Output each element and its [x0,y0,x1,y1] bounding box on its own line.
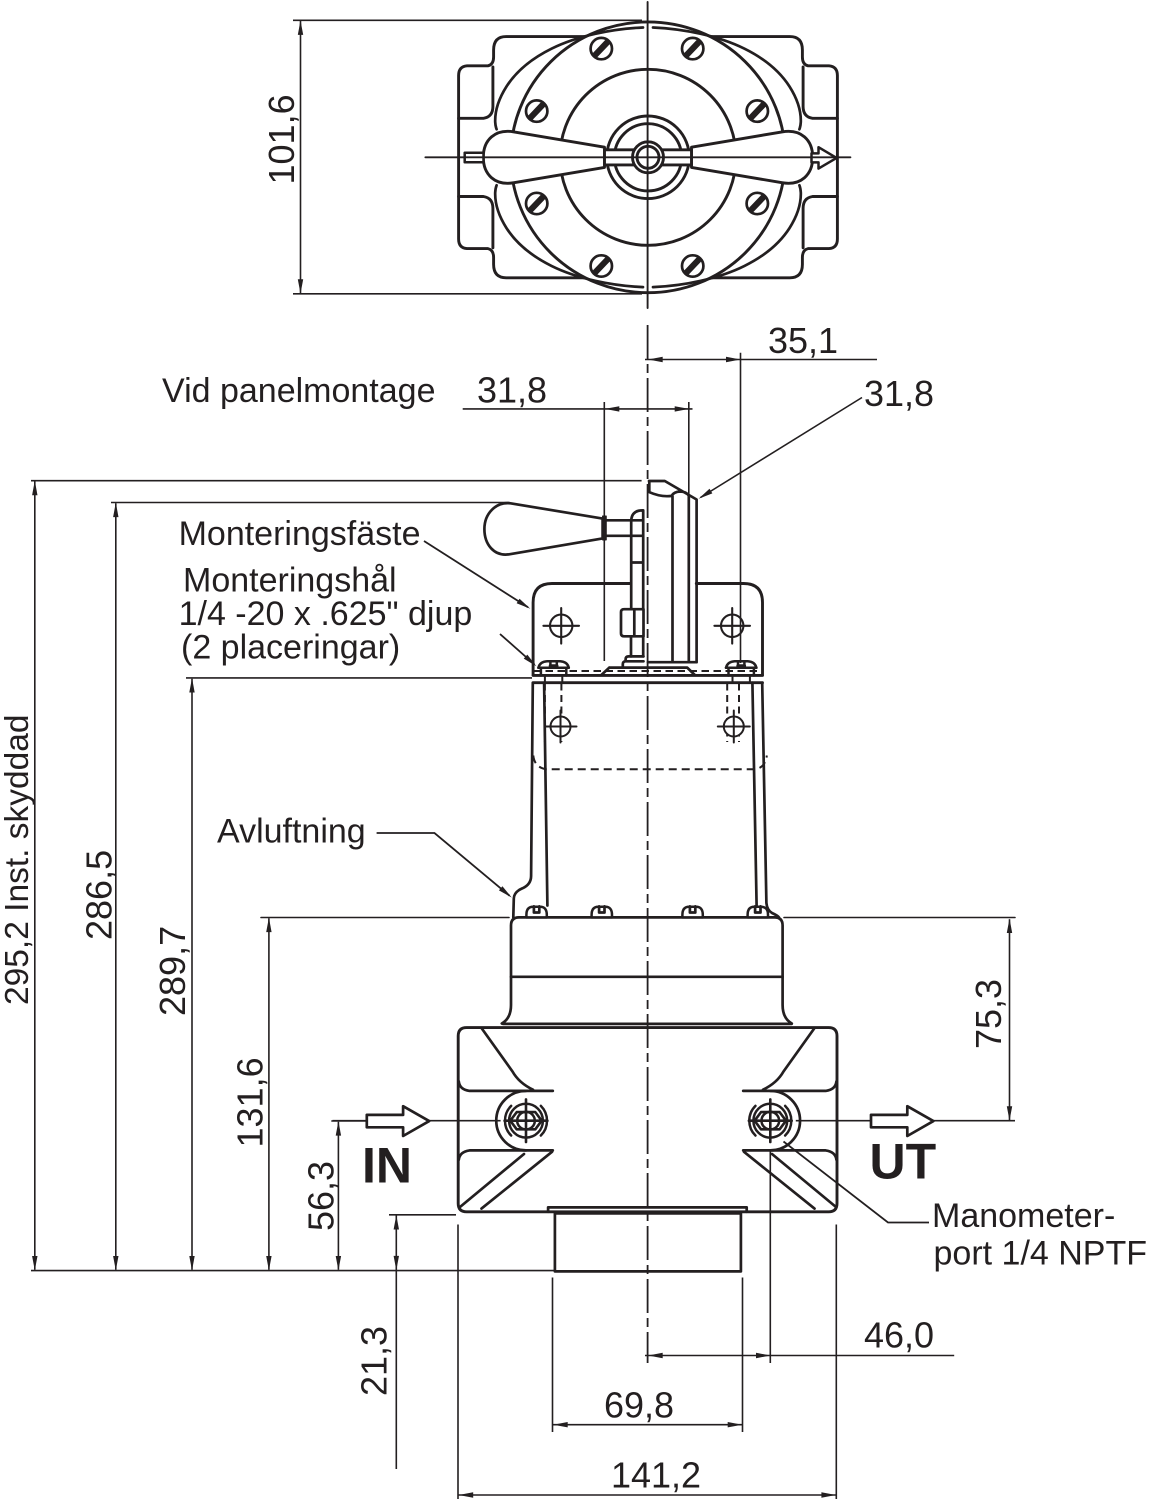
body chamfer diagonal top-right [763,1029,814,1090]
leader Avluftning [377,833,510,896]
UT flow arrow [871,1106,933,1136]
dim 21,3 extension + line [389,1214,456,1216]
leader 31,8 right [701,398,863,498]
side view vertical centerline [647,325,649,1363]
leader Monteringsfaste [424,541,528,607]
grip neck [606,520,642,536]
IN port [505,1099,548,1142]
dim 131,6 line [268,918,270,1270]
bracket base plate lines [533,675,762,682]
bonnet inner right line [752,683,756,906]
dim 56,3 extension + line [331,1120,366,1122]
foot step slabs [623,656,644,667]
bonnet inner left line [544,683,547,906]
bottom reference line [31,1270,554,1272]
svg-text:Avluftning: Avluftning [217,813,366,851]
dim 289,7 extension + line [186,677,532,679]
top view horizontal centerline [425,156,850,158]
hole center mark left [545,711,577,743]
handle paddle right [692,131,813,183]
dim 69,8 extension lines [553,1278,743,1433]
flange petal curve bottom-left [495,185,643,287]
panel nut [621,609,644,636]
body chamfer diagonal top-left [482,1029,533,1090]
svg-text:46,0: 46,0 [864,1315,934,1356]
bottom port cylinder [555,1213,741,1271]
dim 286,5 extension + line [111,502,510,504]
bonnet outer right edge [762,683,779,918]
flange petal curve bottom-right [653,185,801,287]
knob outer circle [607,116,690,199]
knob hub circle [633,142,664,173]
flange ellipse [511,22,786,293]
port face lines right [743,1082,836,1160]
foot trapezoid [602,668,695,675]
port boss wall left (semicircle) [496,1091,526,1151]
UT port (manometer port) [749,1099,792,1142]
dim 35,1 extension [740,353,742,663]
bonnet outer left edge with vent notch [513,683,533,918]
spring housing mid-section [261,917,1015,919]
dim 75,3 line [1009,919,1011,1120]
mounting bracket plate [533,584,762,676]
dim 101,6 extension lines [293,20,642,294]
svg-text:295,2 Inst. skyddad: 295,2 Inst. skyddad [0,714,36,1005]
svg-text:Monteringsfäste: Monteringsfäste [179,515,421,553]
svg-text:1/4 -20 x .625" djup: 1/4 -20 x .625" djup [179,595,473,633]
svg-text:289,7: 289,7 [152,926,193,1016]
svg-text:131,6: 131,6 [230,1057,271,1147]
port boss pocket left [459,67,493,248]
mid-section top screws [526,906,546,917]
handle paddle left [483,131,604,183]
bottom lip [548,1207,747,1211]
svg-text:Monteringshål: Monteringshål [183,562,397,600]
IN flow arrow [367,1106,429,1136]
dim 69,8 line [553,1424,742,1426]
dim 141,2 extension lines [458,1225,836,1500]
port face lines left [459,1082,553,1160]
mounting screw head right [726,661,756,683]
body chamfer diagonals bottom-left [460,1152,552,1209]
dim 46,0 line [645,1355,954,1357]
hidden screw hole dashed left [545,684,562,743]
dim 31,8 line [463,408,693,410]
manometer port extension line down [769,1151,771,1363]
stem below nut [631,636,643,656]
diaphragm hidden dashed curve [533,756,767,770]
flange screws x8 [526,38,768,277]
leader Manometer-port [784,1142,930,1223]
valve body [458,1028,837,1212]
bonnet circle [560,69,736,245]
svg-text:port 1/4 NPTF: port 1/4 NPTF [934,1235,1148,1273]
flange petal curve top-left [495,28,643,130]
flange petal curve top-right [653,28,801,130]
svg-text:69,8: 69,8 [604,1385,674,1426]
body chamfer diagonals bottom-right [744,1152,836,1209]
svg-text:Vid panelmontage: Vid panelmontage [162,372,435,410]
dim 141,2 line [459,1494,837,1496]
adjusting stem [631,510,643,609]
dim 295,2 extension + line [31,480,642,482]
protective cap [648,481,697,662]
handle stem end rect [465,153,484,163]
svg-text:IN: IN [362,1138,412,1194]
port centerline right [796,1120,1015,1122]
svg-text:(2 placeringar): (2 placeringar) [181,629,400,667]
bracket hole cross right [714,608,750,644]
svg-text:UT: UT [870,1134,937,1190]
mounting screw head left [538,661,568,683]
hole center mark right [718,711,750,743]
svg-text:35,1: 35,1 [768,320,838,361]
handle grip [484,503,602,554]
hidden screw hole dashed right [727,684,739,743]
top view vertical centerline [647,2,649,308]
svg-text:31,8: 31,8 [864,373,934,414]
mid-section joint line [511,975,783,978]
dim 31,8 extension lines [604,402,689,661]
svg-text:Manometer-: Manometer- [932,1197,1115,1235]
svg-text:21,3: 21,3 [354,1326,395,1396]
mid-section bottom line [503,1023,792,1026]
dim 101,6 line [300,21,302,293]
port centerline left [333,1120,501,1122]
svg-text:56,3: 56,3 [301,1161,342,1231]
leader Monteringshal [500,634,535,665]
port boss pocket right [803,67,837,248]
knob circle 2 [614,124,681,191]
grip ferrule bar [603,516,606,540]
svg-text:286,5: 286,5 [79,850,120,940]
valve body top view silhouette [459,37,838,278]
handle bar [605,150,692,165]
svg-text:141,2: 141,2 [611,1455,701,1496]
port boss wall right (semicircle) [770,1091,800,1151]
base plate hidden edge dashed [534,670,763,672]
svg-text:101,6: 101,6 [261,94,302,184]
svg-text:75,3: 75,3 [968,979,1009,1049]
bracket hole cross left [543,608,579,644]
dim 35,1 line [645,359,877,361]
svg-text:31,8: 31,8 [477,370,547,411]
knob hub inner circle [637,146,659,168]
open arrow on horizontal centerline [812,147,837,168]
